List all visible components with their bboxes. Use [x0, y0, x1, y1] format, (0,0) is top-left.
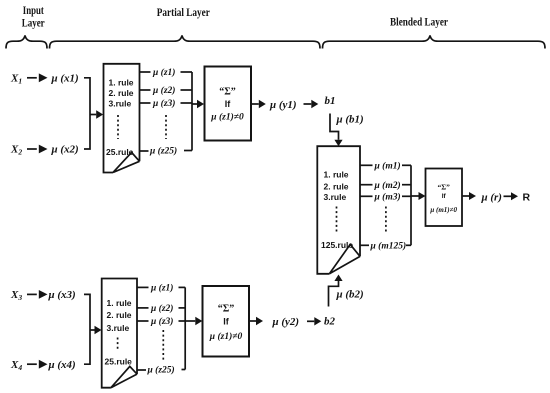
wire sum box 2 out — [462, 195, 469, 197]
wire collector blended — [410, 165, 412, 245]
svg-text:25.rule: 25.rule — [105, 356, 133, 366]
wire collector 1 — [191, 72, 193, 151]
wire mu(x3) elbow — [84, 294, 90, 330]
wire z2 to collector — [181, 89, 193, 91]
wire into sum box 3 — [185, 320, 195, 322]
label mu(y1) — [269, 99, 297, 111]
brace blended layer — [323, 36, 546, 49]
label mu(x1) — [51, 73, 79, 85]
label mu(z1) — [152, 67, 175, 78]
wire z25 stub — [140, 150, 149, 152]
wire to b2 — [307, 320, 314, 322]
svg-text:R: R — [523, 191, 531, 203]
wire m3 to collector — [402, 195, 411, 197]
svg-text:μ (z1)≠0: μ (z1)≠0 — [210, 111, 244, 122]
brace partial layer — [50, 36, 321, 49]
wire z3b stub — [137, 320, 149, 322]
svg-text:Partial Layer: Partial Layer — [157, 7, 210, 19]
svg-text:Blended Layer: Blended Layer — [390, 17, 448, 29]
svg-text:b2: b2 — [324, 315, 336, 327]
wire z25 to collector — [184, 150, 192, 152]
label mu(b1) — [336, 114, 364, 126]
wire mu(x2) elbow — [84, 115, 90, 150]
svg-text:μ (m3): μ (m3) — [374, 192, 401, 203]
svg-text:2. rule: 2. rule — [324, 182, 349, 192]
wire m2 stub — [360, 184, 373, 186]
wire z2b stub — [137, 307, 149, 309]
arrowhead sum box 3 out — [256, 317, 263, 325]
svg-text:μ (x4): μ (x4) — [48, 359, 76, 371]
svg-text:b1: b1 — [325, 95, 336, 107]
svg-text:3.rule: 3.rule — [107, 323, 130, 333]
label mu(m3) — [374, 192, 401, 203]
node b2 — [324, 315, 336, 327]
dots between z3 and z25 — [165, 115, 167, 139]
svg-text:μ (b1): μ (b1) — [336, 114, 364, 126]
svg-text:“Σ”: “Σ” — [437, 183, 450, 192]
wire sum box 3 out — [249, 320, 256, 322]
arrowhead to b1 — [311, 100, 318, 108]
svg-text:μ (z3): μ (z3) — [152, 98, 175, 109]
svg-text:1. rule: 1. rule — [324, 170, 349, 180]
label mu(m1) — [374, 161, 401, 172]
label mu(z3) — [152, 98, 175, 109]
arrowhead to R — [511, 192, 518, 200]
wire z3 stub — [140, 102, 151, 104]
node X1 — [10, 73, 22, 86]
svg-text:μ (z1): μ (z1) — [152, 67, 175, 78]
sum box 2 — [426, 169, 463, 227]
wire into sum box 1 — [192, 103, 197, 105]
wire to b1 — [304, 103, 312, 105]
wire X3 arrow shaft — [27, 293, 37, 295]
label mu(r) — [481, 191, 502, 203]
arrowhead b2 into blended rule box — [334, 275, 342, 282]
svg-text:μ (z2): μ (z2) — [152, 85, 175, 96]
arrowhead X2 — [39, 145, 48, 154]
arrowhead X4 — [39, 360, 48, 369]
wire z2 stub — [140, 89, 151, 91]
svg-text:2. rule: 2. rule — [107, 310, 132, 320]
dots between m3 and m125 — [385, 207, 387, 232]
svg-text:μ (m2): μ (m2) — [374, 180, 401, 191]
wire z25b to collector — [182, 369, 186, 371]
wire m2 to collector — [402, 184, 411, 186]
svg-text:μ (m125): μ (m125) — [370, 241, 407, 252]
wire z25b stub — [137, 369, 146, 371]
rule box 1 (25 rules, folded page) — [104, 64, 140, 173]
svg-text:μ (z25): μ (z25) — [147, 365, 175, 376]
label mu(z3) bottom — [150, 316, 173, 327]
wire m125 to collector — [406, 244, 411, 246]
svg-text:μ (z3): μ (z3) — [150, 316, 173, 327]
rule box 2 (25 rules, folded page) — [102, 279, 137, 388]
arrowhead X3 — [39, 290, 48, 299]
svg-text:μ (y2): μ (y2) — [272, 316, 300, 328]
svg-text:μ (z1)≠0: μ (z1)≠0 — [209, 331, 243, 342]
label mu(z1) bottom — [150, 283, 173, 294]
title Blended Layer — [390, 17, 448, 29]
wire mu(x4) elbow — [84, 330, 90, 364]
dots inside rule box 2 — [117, 338, 119, 351]
wire into rule box 2 — [90, 329, 95, 331]
svg-text:μ (m1): μ (m1) — [374, 161, 401, 172]
brace input layer — [6, 36, 47, 49]
svg-text:Input: Input — [23, 5, 44, 17]
svg-text:μ (y1): μ (y1) — [269, 99, 297, 111]
dots between z3b and z25b — [162, 330, 164, 360]
wire b2 up to blended rule box — [329, 281, 339, 307]
sum box 1 — [205, 67, 252, 141]
wire into sum box 2 — [411, 195, 419, 197]
wire m1 to collector — [402, 164, 411, 166]
svg-text:μ (x2): μ (x2) — [51, 144, 79, 156]
title Partial Layer — [157, 7, 210, 19]
svg-text:25.rule: 25.rule — [106, 147, 134, 157]
arrowhead sum box 2 out — [469, 192, 476, 200]
node b1 — [325, 95, 336, 107]
label mu(z25) bottom — [147, 365, 175, 376]
wire m3 stub — [360, 195, 373, 197]
svg-text:125.rule: 125.rule — [321, 240, 353, 250]
svg-text:“Σ”: “Σ” — [219, 87, 236, 98]
node X2 — [10, 144, 22, 157]
wire z1 stub — [140, 71, 151, 73]
svg-text:μ (x1): μ (x1) — [51, 73, 79, 85]
wire sum box 1 out — [251, 103, 259, 105]
svg-text:Layer: Layer — [22, 18, 45, 30]
title Input Layer — [22, 5, 45, 30]
wire to R — [504, 195, 512, 197]
svg-text:3.rule: 3.rule — [109, 98, 132, 108]
wire z3 to collector — [181, 102, 193, 104]
wire m1 stub — [360, 164, 373, 166]
wire z1b stub — [137, 286, 149, 288]
svg-text:μ (r): μ (r) — [481, 191, 502, 203]
label mu(z2) bottom — [150, 303, 173, 314]
label mu(m125) — [370, 241, 407, 252]
arrowhead X1 — [39, 73, 48, 82]
svg-text:μ (x3): μ (x3) — [48, 289, 76, 301]
svg-text:1. rule: 1. rule — [107, 298, 132, 308]
label mu(m2) — [374, 180, 401, 191]
label mu(z2) — [152, 85, 175, 96]
node X4 — [10, 359, 22, 372]
svg-text:3.rule: 3.rule — [324, 192, 347, 202]
dots inside rule box 1 — [117, 115, 119, 139]
svg-text:μ (z2): μ (z2) — [150, 303, 173, 314]
svg-text:1. rule: 1. rule — [109, 78, 134, 88]
wire mu(x1) elbow — [84, 78, 90, 115]
svg-text:μ (m1)≠0: μ (m1)≠0 — [429, 206, 457, 214]
wire m125 stub — [360, 244, 369, 246]
node R — [523, 191, 531, 203]
node X3 — [10, 289, 22, 302]
sum box 3 — [203, 286, 250, 357]
wire X2 arrow shaft — [27, 148, 37, 150]
wire collector bottom — [184, 287, 186, 369]
wire z1b to collector — [179, 286, 186, 288]
svg-text:2. rule: 2. rule — [109, 88, 134, 98]
label mu(z25) — [149, 146, 177, 157]
arrowhead into sum box 1 — [197, 100, 204, 108]
label mu(x2) — [51, 144, 79, 156]
wire X1 arrow shaft — [27, 77, 37, 79]
svg-text:“Σ”: “Σ” — [218, 304, 235, 315]
arrowhead into sum box 3 — [195, 317, 202, 325]
label mu(x4) — [48, 359, 76, 371]
label mu(b2) — [336, 289, 364, 301]
arrowhead b1 into blended rule box — [334, 140, 342, 147]
wire z2b to collector — [179, 307, 186, 309]
svg-text:μ (b2): μ (b2) — [336, 289, 364, 301]
wire z1 to collector — [181, 71, 193, 73]
wire into rule box 1 — [90, 114, 96, 116]
svg-text:μ (z25): μ (z25) — [149, 146, 177, 157]
wire b1 down to blended rule box — [330, 114, 339, 140]
label mu(y2) — [272, 316, 300, 328]
wire X4 arrow shaft — [27, 363, 37, 365]
arrowhead into rule box 2 — [95, 326, 102, 334]
arrowhead sum box 1 out — [259, 100, 266, 108]
rule box blended (125 rules, folded page) — [317, 146, 360, 274]
arrowhead into rule box 1 — [96, 110, 103, 118]
dots inside blended rule box — [336, 207, 338, 232]
label mu(x3) — [48, 289, 76, 301]
arrowhead to b2 — [314, 317, 321, 325]
arrowhead into sum box 2 — [419, 192, 426, 200]
wire z3b to collector — [179, 320, 186, 322]
svg-text:μ (z1): μ (z1) — [150, 283, 173, 294]
